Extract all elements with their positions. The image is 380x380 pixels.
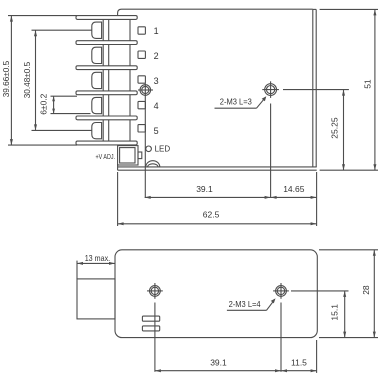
leader line 2-M3 L=4 — [227, 298, 276, 310]
svg-text:28: 28 — [361, 285, 371, 295]
dimension 6±0.2 — [51, 96, 91, 113]
terminal pin pads 1-5 — [138, 27, 145, 132]
svg-text:5: 5 — [154, 126, 159, 136]
case outline, top view — [118, 9, 317, 170]
svg-text:2-M3 L=3: 2-M3 L=3 — [220, 97, 253, 106]
terminal block separator bars, top view — [76, 16, 137, 145]
dimension 39.1 and 11.5, bottom view — [155, 340, 317, 373]
terminal block body edge lines — [103, 19, 130, 141]
dimension 62.5 — [118, 172, 317, 226]
ventilation slots — [142, 316, 159, 331]
dimension 25.25 — [342, 90, 345, 171]
case outline, bottom view — [115, 250, 317, 338]
svg-text:51: 51 — [363, 79, 373, 89]
svg-text:2-M3 L=4: 2-M3 L=4 — [229, 300, 262, 309]
svg-text:39.66±0.5: 39.66±0.5 — [1, 61, 11, 98]
svg-text:4: 4 — [154, 101, 159, 111]
dimension 39.66±0.5 — [8, 16, 77, 146]
dimension 39.1 and 14.65, top view — [145, 196, 317, 199]
dimension 30.48±0.5 — [32, 30, 93, 130]
cover mounting hole M3, top view — [262, 81, 349, 197]
svg-text:2: 2 — [154, 51, 159, 61]
svg-text:39.1: 39.1 — [196, 184, 213, 194]
pin number labels 1-5 — [154, 26, 159, 136]
terminal block, bottom view — [77, 279, 115, 319]
svg-text:6±0.2: 6±0.2 — [39, 93, 49, 114]
svg-text:LED: LED — [155, 145, 171, 154]
svg-text:1: 1 — [154, 26, 159, 36]
svg-text:62.5: 62.5 — [203, 209, 220, 219]
mounting hole M3 right, bottom view — [273, 283, 348, 372]
mounting hole M3 left, bottom view — [147, 283, 163, 372]
dimension 15.1 — [319, 291, 378, 338]
LED indicator — [146, 146, 152, 152]
svg-text:39.1: 39.1 — [210, 357, 227, 367]
dimension 51 — [320, 9, 378, 170]
svg-text:25.25: 25.25 — [330, 117, 340, 139]
svg-text:11.5: 11.5 — [291, 358, 307, 368]
strain relief bushing arcs — [146, 161, 160, 167]
terminal screws 1-5 — [92, 22, 102, 139]
svg-text:14.65: 14.65 — [283, 184, 305, 194]
dimension 28 — [319, 250, 378, 338]
svg-text:+V ADJ.: +V ADJ. — [96, 152, 116, 161]
dimension 13 max. — [77, 261, 115, 279]
leader line 2-M3 L=3 — [215, 96, 267, 108]
svg-text:3: 3 — [154, 76, 159, 86]
svg-text:15.1: 15.1 — [329, 304, 339, 321]
side mounting hole with crosshair — [138, 83, 153, 198]
svg-text:13 max.: 13 max. — [85, 253, 111, 263]
potentiometer +V ADJ — [118, 146, 142, 165]
svg-text:30.48±0.5: 30.48±0.5 — [22, 62, 32, 99]
